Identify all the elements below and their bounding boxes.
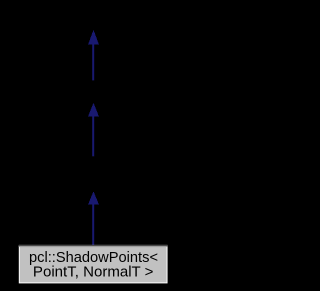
- node box top edge shading: [18, 245, 167, 246]
- node pcl::ShadowPoints box: [19, 245, 167, 283]
- wire: inheritance arrow 3 head: [88, 191, 99, 204]
- wire: inheritance arrow 1 head: [88, 30, 99, 45]
- svg-text:PointT, NormalT >: PointT, NormalT >: [33, 263, 154, 280]
- wire: inheritance arrow 2 shaft (middle): [92, 116, 94, 156]
- wire: inheritance arrow 1 shaft (topmost): [92, 44, 94, 80]
- wire: inheritance arrow 3 shaft (into node): [92, 204, 94, 245]
- wire: inheritance arrow 2 head: [88, 103, 99, 117]
